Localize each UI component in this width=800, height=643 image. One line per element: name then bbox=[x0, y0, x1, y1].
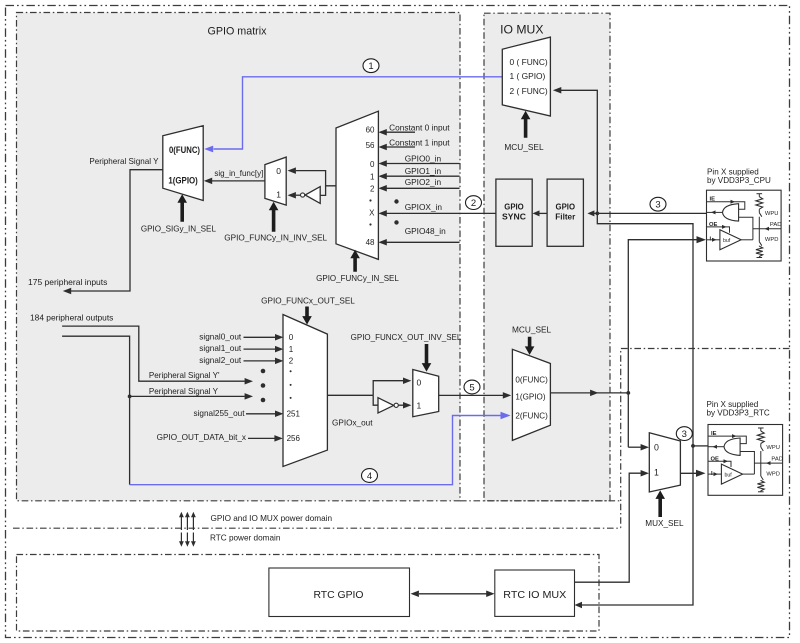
input-function mux GPIO_FUNCy_IN_SEL bbox=[336, 111, 378, 259]
svg-text:Peripheral Signal Y': Peripheral Signal Y' bbox=[149, 371, 220, 380]
MUX_SEL mux input 1 wire bbox=[575, 473, 642, 582]
svg-text:GPIO2_in: GPIO2_in bbox=[405, 177, 442, 187]
blue bypass wire from IO MUX to peripheral mux 0(FUNC) bbox=[214, 77, 503, 149]
pad to filter wire bbox=[592, 212, 707, 214]
node 5 marker bbox=[464, 380, 480, 394]
pad buffer output wire (VDD3P3_RTC) bbox=[743, 473, 755, 475]
MUX_SEL select arrow bbox=[655, 490, 665, 517]
svg-text:GPIO_OUT_DATA_bit_x: GPIO_OUT_DATA_bit_x bbox=[157, 433, 246, 442]
svg-text:RTC power domain: RTC power domain bbox=[210, 534, 281, 543]
bypass wire to out-inv mux input 0 bbox=[373, 381, 403, 396]
GPIO_FUNCX_OUT_INV_SEL select arrow bbox=[422, 344, 432, 372]
GPIO_FUNCy_IN_INV_SEL select arrow bbox=[269, 202, 279, 232]
MCU_SEL select arrow (bottom) bbox=[525, 337, 535, 355]
svg-text:Peripheral Signal Y: Peripheral Signal Y bbox=[149, 387, 219, 396]
junction dot at RTC pad input branch bbox=[691, 444, 695, 448]
svg-text:Constant 0 input: Constant 0 input bbox=[389, 123, 450, 133]
svg-text:Constant 1 input: Constant 1 input bbox=[389, 137, 450, 147]
GPIO48_in wire bbox=[386, 241, 460, 243]
RTC pad gate output wire bbox=[693, 445, 708, 447]
RTC GPIO to RTC IO MUX bidirectional wire bbox=[419, 593, 487, 595]
GPIO_FUNCy_IN_SEL select arrow bbox=[350, 250, 360, 272]
svg-text:Peripheral Signal Y: Peripheral Signal Y bbox=[89, 157, 159, 166]
pad buffer output wire (VDD3P3_CPU) bbox=[741, 239, 753, 241]
wire up to CPU pad input buffer bbox=[628, 240, 697, 448]
RTC IO MUX box bbox=[495, 570, 575, 616]
svg-text:sig_in_func[y]: sig_in_func[y] bbox=[214, 169, 263, 178]
output inverter wire to out-inv mux input 1 bbox=[399, 404, 404, 406]
svg-text:WPD: WPD bbox=[765, 237, 779, 243]
power domain separator line bbox=[13, 527, 621, 529]
inverter bypass wire to mux input 0 bbox=[296, 171, 336, 186]
pad input AND gate (VDD3P3_CPU) bbox=[723, 204, 739, 221]
pad IE wire (VDD3P3_CPU) bbox=[707, 202, 745, 210]
pad gate second input wire (VDD3P3_RTC) bbox=[740, 452, 754, 475]
node 3 marker (RTC) bbox=[676, 427, 692, 441]
IO MUX output mux MCU_SEL bottom bbox=[512, 349, 550, 440]
pad IE wire (VDD3P3_RTC) bbox=[708, 436, 746, 444]
pad WPD pull-down resistor (VDD3P3_RTC) bbox=[760, 463, 762, 476]
filter to sync wire bbox=[537, 212, 548, 214]
pad OE wire (VDD3P3_CPU) bbox=[707, 227, 730, 233]
svg-text:2: 2 bbox=[471, 198, 476, 209]
GPIO_FUNCx_OUT_SEL select arrow bbox=[302, 307, 312, 325]
svg-text:1: 1 bbox=[368, 61, 373, 72]
wire into output inverter bbox=[373, 395, 378, 405]
RTC domain region border (right side) bbox=[621, 349, 790, 528]
peripheral output wire Y-prime bbox=[62, 326, 245, 381]
wire into 2 FUNC from pad input bbox=[561, 90, 597, 213]
input inverter bbox=[305, 187, 320, 204]
svg-text:GPIO and IO MUX power domain: GPIO and IO MUX power domain bbox=[211, 514, 333, 523]
svg-text:Filter: Filter bbox=[555, 212, 576, 222]
GPIOX_in wire from GPIO SYNC bbox=[386, 212, 496, 214]
signal0_out wire bbox=[244, 336, 276, 338]
svg-text:0: 0 bbox=[417, 377, 422, 387]
output-invert mux GPIO_FUNCX_OUT_INV_SEL bbox=[413, 370, 439, 417]
svg-text:56: 56 bbox=[366, 141, 375, 150]
svg-text:GPIOX_in: GPIOX_in bbox=[405, 202, 443, 212]
MUX_SEL mux output wire to RTC pad bbox=[680, 472, 697, 474]
svg-text:WPD: WPD bbox=[766, 471, 780, 477]
GPIO SYNC box bbox=[496, 179, 532, 246]
RTC GPIO box bbox=[269, 568, 410, 617]
svg-text:2: 2 bbox=[289, 357, 294, 366]
pad WPU pull-up resistor (VDD3P3_RTC) bbox=[758, 427, 764, 429]
power domain boundary line bbox=[460, 500, 621, 502]
branch wire down from Peripheral Signal Y bbox=[129, 396, 131, 484]
svg-text:GPIO48_in: GPIO48_in bbox=[405, 226, 446, 236]
svg-text:signal2_out: signal2_out bbox=[199, 356, 242, 365]
svg-text:4: 4 bbox=[367, 471, 372, 482]
svg-text:1(GPIO): 1(GPIO) bbox=[168, 175, 197, 185]
svg-text:256: 256 bbox=[287, 434, 301, 443]
svg-text:1: 1 bbox=[289, 345, 294, 354]
signal2_out wire bbox=[244, 360, 276, 362]
GPIO_SIGy_IN_SEL select arrow bbox=[177, 194, 187, 222]
node 4 marker bbox=[362, 469, 378, 483]
svg-text:175 peripheral inputs: 175 peripheral inputs bbox=[28, 277, 107, 287]
GPIO_OUT_DATA_bit_x wire bbox=[248, 437, 275, 439]
svg-text:MCU_SEL: MCU_SEL bbox=[512, 325, 552, 335]
pad gate output wire (VDD3P3_CPU) bbox=[707, 211, 723, 213]
svg-text:PAD: PAD bbox=[770, 222, 782, 228]
svg-text:1: 1 bbox=[417, 401, 422, 411]
svg-text:251: 251 bbox=[287, 410, 301, 419]
IO pad cell box (VDD3P3_CPU) bbox=[707, 190, 782, 261]
GPIO matrix region box bbox=[17, 13, 461, 501]
svg-text:GPIO_FUNCy_IN_INV_SEL: GPIO_FUNCy_IN_INV_SEL bbox=[224, 233, 327, 242]
svg-text:GPIO_FUNCx_OUT_SEL: GPIO_FUNCx_OUT_SEL bbox=[261, 296, 355, 305]
pad OE wire (VDD3P3_RTC) bbox=[708, 461, 731, 467]
IO MUX region box bbox=[484, 13, 610, 501]
GPIO and IO MUX power domain up-arrows bbox=[180, 515, 182, 531]
svg-text:by VDD3P3_CPU: by VDD3P3_CPU bbox=[707, 176, 771, 185]
svg-text:signal0_out: signal0_out bbox=[199, 332, 242, 341]
svg-text:RTC GPIO: RTC GPIO bbox=[313, 590, 363, 601]
svg-text:GPIO matrix: GPIO matrix bbox=[208, 26, 267, 38]
svg-text:GPIO: GPIO bbox=[556, 202, 576, 212]
Constant 1 input wire bbox=[386, 146, 415, 148]
sig_in_func wire bbox=[212, 180, 265, 182]
ellipsis dots output side bbox=[261, 369, 266, 374]
node 3 marker (input) bbox=[650, 197, 666, 211]
pad gate second input wire (VDD3P3_CPU) bbox=[739, 217, 753, 240]
svg-text:GPIOx_out: GPIOx_out bbox=[332, 418, 373, 427]
svg-text:1: 1 bbox=[276, 189, 281, 199]
svg-text:IO MUX: IO MUX bbox=[500, 23, 543, 37]
junction dot on pad input wire bbox=[595, 212, 599, 216]
GPIO0_in wire bbox=[386, 163, 460, 165]
svg-text:buf: buf bbox=[725, 473, 733, 479]
junction on Peripheral Signal Y bbox=[128, 395, 132, 399]
svg-text:60: 60 bbox=[366, 126, 375, 135]
svg-text:3: 3 bbox=[682, 429, 687, 440]
svg-text:0 ( FUNC): 0 ( FUNC) bbox=[510, 57, 548, 67]
svg-text:2 ( FUNC): 2 ( FUNC) bbox=[510, 86, 548, 96]
svg-text:WPU: WPU bbox=[766, 445, 780, 451]
RTC power domain region box (bottom) bbox=[17, 555, 600, 632]
pad WPU pull-up resistor (VDD3P3_CPU) bbox=[757, 193, 763, 195]
pad output buffer (VDD3P3_CPU) bbox=[707, 239, 720, 241]
svg-text:1 ( GPIO): 1 ( GPIO) bbox=[510, 71, 546, 81]
svg-text:1: 1 bbox=[370, 173, 375, 182]
RTC select mux MUX_SEL bbox=[649, 433, 680, 492]
Peripheral Signal Y output wire bbox=[71, 170, 163, 291]
output wire to IO MUX bbox=[439, 394, 503, 396]
pad PAD net wire (VDD3P3_RTC) bbox=[754, 462, 782, 464]
svg-text:0(FUNC): 0(FUNC) bbox=[169, 145, 200, 155]
svg-text:signal255_out: signal255_out bbox=[194, 409, 246, 418]
svg-text:buf: buf bbox=[723, 238, 731, 244]
svg-text:WPU: WPU bbox=[765, 211, 779, 217]
pad input jog wire down to RTC bbox=[579, 213, 694, 605]
IO MUX output wire bbox=[550, 392, 628, 394]
RTC power domain down-arrows bbox=[180, 533, 182, 544]
svg-text:SYNC: SYNC bbox=[502, 212, 526, 222]
pad WPD pull-down resistor (VDD3P3_CPU) bbox=[758, 229, 760, 242]
ellipsis dots input side bbox=[394, 199, 398, 203]
svg-text:0: 0 bbox=[654, 443, 659, 453]
svg-text:5: 5 bbox=[469, 382, 474, 393]
svg-text:2(FUNC): 2(FUNC) bbox=[515, 412, 548, 421]
svg-text:0: 0 bbox=[276, 166, 281, 176]
pad output buffer (VDD3P3_RTC) bbox=[708, 473, 721, 475]
IO MUX input mux MCU_SEL bbox=[502, 37, 550, 116]
inverter output wire to mux input 1 bbox=[296, 194, 301, 196]
node 1 marker bbox=[363, 59, 379, 73]
GPIOx_out wire to inverter stage bbox=[327, 394, 373, 396]
svg-text:GPIO1_in: GPIO1_in bbox=[405, 166, 442, 176]
blue output wire to 2FUNC bbox=[130, 416, 501, 485]
svg-text:GPIO0_in: GPIO0_in bbox=[405, 153, 442, 163]
svg-text:GPIO_SIGy_IN_SEL: GPIO_SIGy_IN_SEL bbox=[141, 224, 217, 233]
invert-select mux GPIO_FUNCy_IN_INV_SEL bbox=[265, 157, 286, 205]
output inverter bbox=[378, 398, 394, 413]
svg-text:48: 48 bbox=[366, 238, 375, 247]
pad input AND gate (VDD3P3_RTC) bbox=[724, 438, 740, 455]
svg-text:GPIO: GPIO bbox=[504, 202, 524, 212]
svg-text:MUX_SEL: MUX_SEL bbox=[645, 519, 684, 528]
GPIO2_in wire bbox=[386, 187, 460, 189]
pad gate output wire (VDD3P3_RTC) bbox=[708, 446, 724, 448]
svg-text:0: 0 bbox=[370, 160, 375, 169]
peripheral-input mux GPIO_SIGy_IN_SEL bbox=[163, 126, 203, 201]
svg-text:PAD: PAD bbox=[771, 456, 783, 462]
svg-text:2: 2 bbox=[370, 184, 375, 193]
junction dot on IO MUX output bbox=[626, 391, 630, 395]
pad PAD net wire (VDD3P3_CPU) bbox=[753, 228, 781, 230]
node 2 marker bbox=[466, 196, 482, 210]
MUX_SEL mux input 0 wire bbox=[628, 446, 641, 448]
svg-text:RTC IO MUX: RTC IO MUX bbox=[503, 590, 566, 601]
svg-text:0(FUNC): 0(FUNC) bbox=[515, 375, 548, 384]
signal255_out wire bbox=[246, 413, 275, 415]
svg-text:GPIO_FUNCy_IN_SEL: GPIO_FUNCy_IN_SEL bbox=[316, 274, 399, 283]
svg-text:by VDD3P3_RTC: by VDD3P3_RTC bbox=[707, 409, 770, 418]
GPIO1_in wire bbox=[386, 175, 460, 177]
MCU_SEL select arrow (top) bbox=[521, 111, 531, 138]
svg-text:MCU_SEL: MCU_SEL bbox=[504, 142, 544, 152]
IO pad cell box (VDD3P3_RTC) bbox=[708, 425, 783, 496]
output-function mux GPIO_FUNCx_OUT_SEL bbox=[283, 315, 327, 467]
svg-text:0: 0 bbox=[289, 333, 294, 342]
svg-text:X: X bbox=[369, 209, 375, 218]
Constant 0 input wire bbox=[386, 131, 415, 133]
svg-text:1(GPIO): 1(GPIO) bbox=[515, 392, 545, 401]
svg-text:3: 3 bbox=[655, 200, 660, 211]
svg-text:GPIO_FUNCX_OUT_INV_SEL: GPIO_FUNCX_OUT_INV_SEL bbox=[351, 333, 462, 342]
GPIO Filter box bbox=[547, 179, 583, 246]
svg-text:184 peripheral outputs: 184 peripheral outputs bbox=[30, 312, 113, 322]
peripheral output wire Y bbox=[62, 336, 245, 396]
svg-text:1: 1 bbox=[654, 468, 659, 478]
signal1_out wire bbox=[244, 348, 276, 350]
wire into inverter bbox=[320, 186, 325, 196]
svg-text:signal1_out: signal1_out bbox=[199, 344, 242, 353]
